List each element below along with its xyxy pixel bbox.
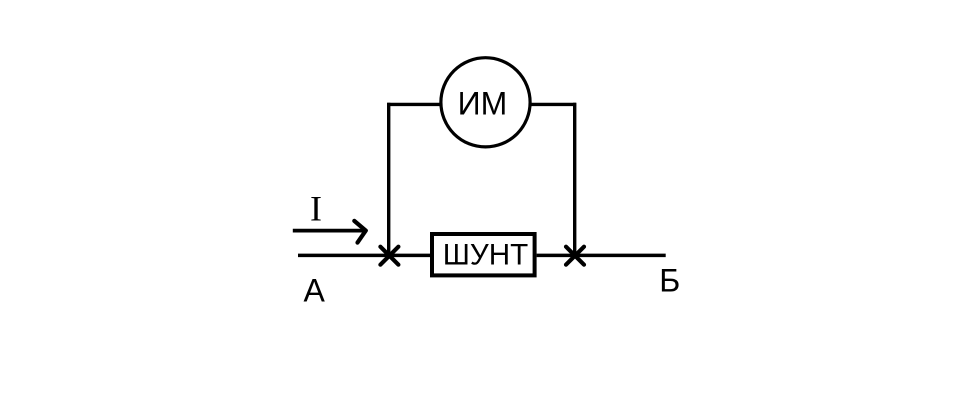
junction terminal X (right) [566,247,584,265]
current arrow I (shaft) [293,229,365,233]
junction terminal X (left) [380,247,398,265]
wire: main line right segment (shunt to B) [537,254,666,258]
current arrow I (head) [354,221,366,243]
wire: main line left segment (A to shunt) [298,254,432,258]
svg-text:ШУНТ: ШУНТ [443,239,529,272]
wire: left top horizontal [387,103,442,106]
wire: right vertical drop [573,103,576,256]
svg-text:Б: Б [659,262,680,298]
resistor box ШУНТ [432,234,535,275]
measuring mechanism IM (circle) [441,58,530,147]
wire: right top horizontal [530,103,577,106]
wire: left vertical drop [387,103,390,256]
svg-text:I: I [310,189,322,229]
svg-text:А: А [304,273,326,309]
svg-text:ИМ: ИМ [458,85,508,121]
